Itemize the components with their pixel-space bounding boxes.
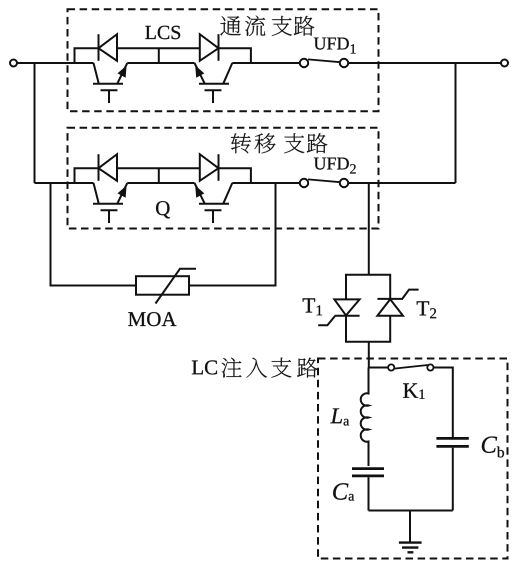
switch UFD2 contact right (340, 179, 348, 187)
label LCS (145, 26, 155, 39)
IGBT left : channel bar (93, 203, 123, 205)
IGBT right : gate bar and lead (205, 90, 222, 103)
IGBT left : collector lead (94, 183, 99, 204)
label UFD1 (314, 38, 326, 50)
diode D-left cathode bar (98, 34, 100, 61)
label La (330, 408, 342, 423)
label T2 (417, 301, 429, 315)
thyristor T2 gate lead (403, 290, 419, 299)
label 注入支路 (221, 358, 241, 378)
wire : upper path between diodes (117, 167, 200, 169)
switch UFD2 contact left (300, 179, 308, 187)
wire : upper-path left stub (75, 168, 99, 183)
thyristor T1 triangle (points down) (334, 299, 359, 315)
terminal right port (501, 60, 508, 67)
diode D-left cathode bar (98, 154, 100, 181)
wire : upper path between diodes (117, 47, 200, 49)
dashed box : transfer branch (68, 128, 379, 229)
thyristor T2 anode bar (377, 298, 403, 300)
wire : MOA branch left drop and bottom run (51, 183, 137, 286)
wire : Cb down to bottom rail (452, 448, 454, 511)
IGBT right : collector lead (223, 183, 232, 204)
IGBT left : gate bar and lead (101, 90, 118, 103)
ground stem (409, 511, 411, 543)
wire : MOA right run and riser to transfer bus (189, 183, 276, 286)
ground bars (399, 543, 422, 553)
IGBT right : emitter lead (195, 63, 205, 84)
varistor MOA diagonal stroke (156, 269, 197, 304)
IGBT left : emitter arrow (118, 65, 127, 77)
label 通流支路 (220, 16, 240, 35)
label Q (156, 201, 170, 218)
thyristor T2 triangle (points up) (377, 299, 403, 316)
label T1 (303, 298, 315, 312)
terminal left port (10, 60, 17, 67)
thyristor T1 cathode bar (334, 315, 359, 317)
diode D-right triangle (points right) (200, 34, 219, 61)
capacitor Ca plates (352, 469, 384, 476)
diode D-right triangle (points right) (200, 154, 219, 181)
IGBT left : emitter lead (117, 183, 127, 204)
IGBT right : channel bar (199, 203, 229, 205)
wire : mid stub joining upper and lower paths (158, 168, 160, 183)
diode D-right cathode bar (218, 154, 220, 181)
switch UFD2 blade (308, 179, 340, 182)
wire : drop from transfer bus to thyristor valve (368, 183, 370, 275)
label K1 (403, 383, 418, 397)
wire : junction to K1 (369, 367, 389, 369)
IGBT left : channel bar (93, 83, 123, 85)
diode D-left triangle (points left) (99, 154, 118, 181)
wire : mid stub joining upper and lower paths (158, 48, 160, 63)
inductor La (361, 368, 369, 467)
label LC of LC injection branch (192, 361, 203, 375)
diode D-left triangle (points left) (99, 34, 118, 61)
IGBT right : channel bar (199, 83, 229, 85)
IGBT left : gate bar and lead (101, 210, 118, 223)
wire : LC bottom rail (369, 510, 453, 512)
label 转移支路 (231, 133, 251, 153)
dashed box : main-current branch (68, 9, 379, 111)
switch UFD1 contact left (300, 59, 308, 67)
label UFD2 (314, 158, 326, 170)
diode D-right cathode bar (218, 34, 220, 61)
IGBT right : emitter lead (195, 183, 205, 204)
dashed box : LC injection branch (318, 359, 508, 559)
IGBT left : emitter arrow (118, 185, 127, 197)
wire : thyristor valve output drop into LC box (368, 342, 370, 368)
switch K1 contact right (427, 364, 433, 370)
wire : upper-path right + stub down (219, 168, 251, 183)
IGBT right : emitter arrow (195, 185, 204, 197)
switch UFD1 blade (308, 59, 340, 62)
label MOA (128, 312, 145, 326)
wire : right vertical joining transfer branch to top bus (455, 63, 457, 183)
wire : upper-path right + stub down (219, 48, 251, 63)
IGBT right : gate bar and lead (205, 210, 222, 223)
wire : upper-path left stub (75, 48, 99, 63)
wire : K1 to right leg corner (434, 368, 453, 438)
thyristor T1 gate lead (318, 316, 335, 325)
wire : Ca down to bottom rail (368, 477, 370, 510)
wire : transfer branch bus segments (35, 182, 456, 184)
IGBT left : emitter lead (117, 63, 127, 84)
wire : thyristor valve frame (346, 275, 390, 342)
IGBT right : collector lead (223, 63, 232, 84)
IGBT left : collector lead (94, 63, 99, 84)
varistor MOA body (136, 276, 189, 295)
label Ca (333, 483, 348, 499)
switch UFD1 contact right (340, 59, 348, 67)
wire : top bus segments (17, 62, 500, 64)
label Cb (482, 436, 497, 452)
wire : left vertical from top bus to transfer branch (34, 63, 36, 183)
capacitor Cb plates (436, 438, 468, 446)
switch K1 contact left (388, 364, 394, 370)
switch K1 blade (394, 365, 428, 369)
IGBT right : emitter arrow (195, 65, 204, 77)
